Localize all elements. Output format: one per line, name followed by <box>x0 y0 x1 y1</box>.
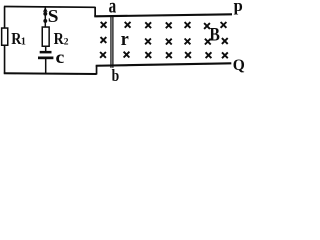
svg-text:p: p <box>234 0 243 15</box>
svg-text:b: b <box>112 67 120 86</box>
svg-text:r: r <box>121 28 129 50</box>
svg-text:Q: Q <box>233 57 245 74</box>
svg-text:S: S <box>48 6 59 26</box>
svg-text:2: 2 <box>64 38 69 48</box>
svg-text:B: B <box>209 24 219 44</box>
svg-text:a: a <box>109 0 117 17</box>
svg-text:1: 1 <box>21 37 26 48</box>
svg-text:c: c <box>56 48 65 68</box>
